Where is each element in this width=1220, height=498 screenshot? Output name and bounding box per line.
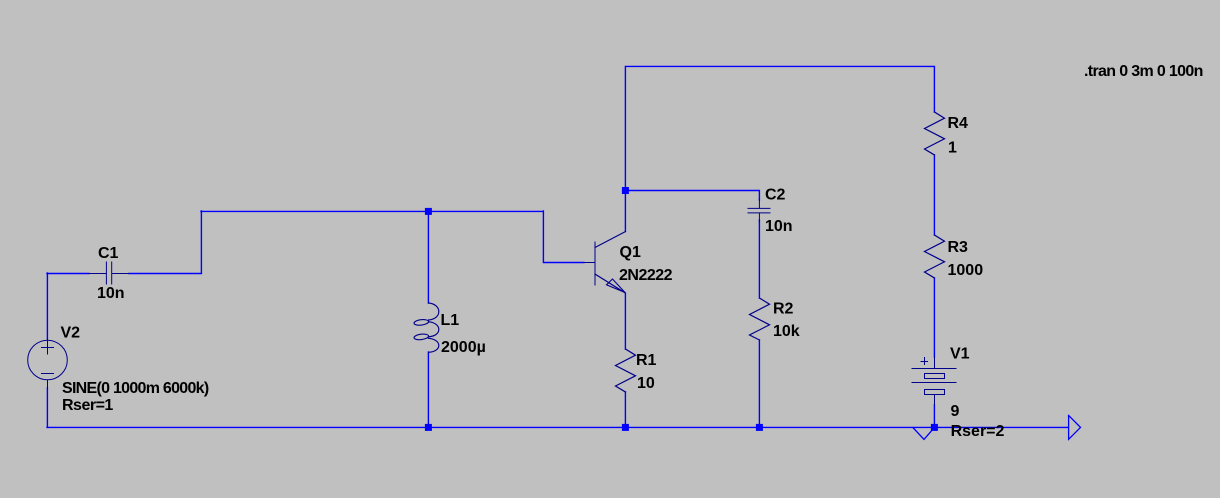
resistor R1 (616, 349, 636, 392)
wire collector node up and top rail (625, 66, 934, 190)
wire V1 bottom (933, 405, 935, 427)
wire to Q1 base (543, 211, 584, 263)
resistor R2 (750, 298, 770, 340)
svg-text:L1: L1 (441, 312, 460, 329)
wire R4 to R3 (933, 155, 935, 235)
battery V1 (912, 357, 956, 405)
ground (913, 428, 934, 440)
svg-text:V2: V2 (61, 325, 81, 342)
svg-text:10n: 10n (765, 218, 793, 235)
svg-text:Q1: Q1 (620, 244, 641, 261)
voltage source V2 (28, 339, 68, 389)
port arrow right (1069, 415, 1081, 439)
svg-text:1: 1 (948, 140, 957, 157)
node junction R1 bottom (622, 424, 629, 431)
capacitor C1 (89, 262, 129, 284)
node junction L1 bottom (425, 424, 432, 431)
transistor Q1 (584, 232, 626, 293)
node junction R2 bottom (756, 424, 763, 431)
wire C1 left (47, 273, 89, 275)
wire R2 bottom (758, 340, 760, 427)
svg-text:2000µ: 2000µ (441, 339, 486, 356)
node junction V1 bottom (931, 424, 938, 431)
svg-text:C1: C1 (98, 245, 119, 262)
svg-text:R4: R4 (948, 115, 969, 132)
node junction collector (622, 187, 629, 194)
wire V2 bottom to rail (46, 388, 48, 427)
capacitor C2 (748, 199, 770, 222)
svg-text:C2: C2 (765, 187, 786, 204)
wire V2 top to C1 level (46, 273, 48, 339)
wire collector node to C2 (625, 191, 759, 201)
svg-text:SINE(0 1000m 6000k): SINE(0 1000m 6000k) (62, 380, 209, 397)
svg-text:10k: 10k (773, 323, 800, 340)
wire C2 to R2 (758, 220, 760, 298)
svg-text:2N2222: 2N2222 (619, 267, 673, 284)
wire bottom rail (47, 426, 1068, 428)
svg-text:R1: R1 (636, 352, 657, 369)
svg-text:.tran 0 3m 0 100n: .tran 0 3m 0 100n (1084, 63, 1203, 80)
wire R3 to V1 (933, 278, 935, 357)
svg-text:R2: R2 (773, 301, 794, 318)
svg-text:Rser=2: Rser=2 (951, 423, 1005, 440)
wire R1 bottom (624, 392, 626, 427)
svg-text:9: 9 (951, 403, 960, 420)
wire Q1 collector (624, 190, 626, 232)
resistor R3 (925, 235, 945, 278)
inductor L1 (414, 303, 439, 352)
wire L1 top (427, 211, 429, 303)
svg-text:R3: R3 (948, 239, 969, 256)
wire top middle horizontal (201, 210, 543, 212)
svg-text:10n: 10n (97, 285, 125, 302)
node junction L1 top (425, 208, 432, 215)
wire C1 right to corner (129, 211, 201, 274)
resistor R4 (925, 112, 945, 155)
wire L1 bottom (427, 352, 429, 427)
svg-text:10: 10 (637, 375, 655, 392)
svg-text:1000: 1000 (948, 262, 984, 279)
wire Q1 emitter to R1 (624, 293, 626, 349)
svg-text:Rser=1: Rser=1 (62, 397, 113, 414)
svg-text:V1: V1 (950, 346, 970, 363)
